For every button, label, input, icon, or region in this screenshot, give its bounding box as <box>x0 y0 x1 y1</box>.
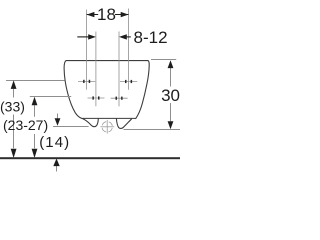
dimension (33): reference line <box>6 80 65 82</box>
water connection crosshair mid-left <box>88 97 105 99</box>
water connection crosshair mid-right <box>111 97 128 99</box>
dimension (33): down arrow <box>11 149 17 158</box>
dimension 8-12: left arrow with tail <box>77 36 88 38</box>
extension line left (18 dim) <box>86 10 88 90</box>
dimension (14): down arrow above drain line <box>57 114 59 120</box>
fixing point crosshair upper-left <box>78 80 95 82</box>
svg-text:8-12: 8-12 <box>134 28 168 47</box>
extension line right (8-12 dim) <box>118 32 120 107</box>
svg-text:(23-27): (23-27) <box>3 117 48 133</box>
dimension 18: line <box>87 14 129 16</box>
dimension (14): up arrow below floor <box>56 166 58 172</box>
dimension 8-12: right arrow with tail <box>127 36 131 38</box>
dimension 18: left arrow <box>87 12 95 17</box>
dimension (33): vertical line <box>13 89 15 148</box>
svg-text:(14): (14) <box>39 134 70 151</box>
dimension 30: down arrow <box>168 121 174 129</box>
svg-text:(33): (33) <box>0 98 25 114</box>
dimension (14): reference line <box>53 126 89 128</box>
dimension (23-27): reference line <box>30 96 71 98</box>
extension line left (8-12 dim) <box>95 32 97 107</box>
bottom reference line (lowest ceramic point) <box>124 129 181 131</box>
svg-text:30: 30 <box>161 86 180 105</box>
fixing point crosshair upper-right <box>120 81 137 83</box>
dimension (23-27): vertical line <box>34 105 36 148</box>
trap left dip <box>82 119 98 127</box>
bottom rim line <box>82 117 136 119</box>
dimension (33): up arrow <box>11 80 17 89</box>
dimension (23-27): up arrow <box>32 97 38 106</box>
drain crosshair with dashed circle <box>100 120 114 134</box>
dimension (23-27): down arrow <box>32 149 38 158</box>
extension line right (18 dim) <box>128 9 130 90</box>
dimension 18: right arrow <box>121 12 129 17</box>
svg-text:18: 18 <box>97 5 116 24</box>
bidet body outline <box>64 61 149 119</box>
dimension 30: vertical line <box>170 67 172 121</box>
dimension 18: label <box>98 7 115 22</box>
dimension 30: up arrow <box>168 60 174 68</box>
trap right dip <box>116 119 131 129</box>
dimension 30: top reference line <box>151 59 176 61</box>
floor line <box>0 157 180 159</box>
